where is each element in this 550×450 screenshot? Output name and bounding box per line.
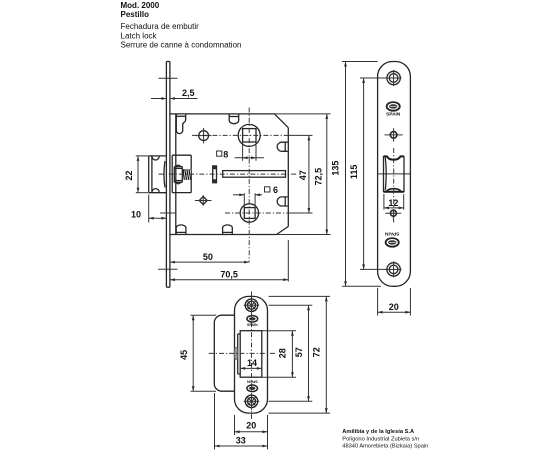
strike centerline vertical — [251, 292, 253, 420]
lock body outline — [170, 114, 331, 235]
guide hole top-left — [196, 128, 212, 143]
faceplate guide hole top — [385, 128, 403, 141]
svg-text:48340 Amorebieta (Bizkaia) Spa: 48340 Amorebieta (Bizkaia) Spain — [342, 444, 428, 450]
dimension 72,5 — [313, 114, 328, 235]
strike ramp tab — [234, 348, 237, 359]
svg-text:33: 33 — [236, 435, 246, 445]
faceplate side view (strip) — [166, 62, 170, 288]
dimension 2,5 — [151, 88, 198, 100]
dimension 50 — [170, 252, 249, 264]
centerline follower bottom — [225, 212, 313, 214]
svg-text:Serrure de canne à condomnatio: Serrure de canne à condomnation — [121, 41, 242, 50]
latch plunger — [174, 165, 182, 184]
svg-text:20: 20 — [389, 302, 399, 312]
dimension 47 — [298, 135, 311, 213]
faceplate mid tick — [378, 173, 411, 175]
svg-text:10: 10 — [131, 209, 141, 219]
latch bolt in opening — [384, 156, 405, 191]
svg-text:Mod. 2000: Mod. 2000 — [121, 1, 160, 10]
svg-text:Polígono Industrial Zubieta s/: Polígono Industrial Zubieta s/n — [342, 436, 419, 442]
svg-text:2,5: 2,5 — [182, 88, 195, 98]
dimension 57 — [269, 305, 313, 401]
svg-text:22: 22 — [124, 170, 134, 180]
company address block — [342, 429, 428, 450]
dimension 8 — [217, 142, 264, 161]
svg-text:135: 135 — [330, 161, 340, 176]
svg-text:8: 8 — [223, 149, 228, 159]
svg-text:115: 115 — [349, 165, 359, 180]
centerline horizontal main — [159, 173, 297, 175]
faceplate centerline vertical — [393, 148, 395, 223]
svg-text:Amilibia y de la Iglesia S.A: Amilibia y de la Iglesia S.A — [342, 429, 414, 435]
faceplate bottom screw hole — [386, 261, 402, 277]
svg-text:47: 47 — [298, 170, 308, 180]
svg-text:6: 6 — [273, 185, 278, 195]
latch spring — [183, 169, 191, 180]
latch bolt head — [149, 156, 167, 193]
side tab lower — [277, 197, 287, 206]
strike bottom screw hole — [244, 393, 260, 410]
strike plate wing — [214, 315, 234, 391]
slider bar — [213, 166, 217, 183]
dimension 20 (faceplate) — [378, 288, 411, 316]
mounting hook slot left — [176, 114, 185, 134]
dimension 28 — [262, 331, 296, 378]
svg-text:72: 72 — [312, 347, 322, 357]
connecting bar — [223, 171, 286, 178]
faceplate top screw hole — [386, 70, 402, 86]
svg-text:Latch lock: Latch lock — [121, 31, 158, 40]
diamond hole bottom-left — [195, 195, 212, 206]
svg-text:SPAIN: SPAIN — [247, 380, 258, 384]
dimension 20 (strike) — [235, 415, 268, 450]
side tab upper — [277, 142, 287, 151]
dimension 14 — [240, 358, 262, 370]
dimension 45 — [179, 315, 216, 391]
svg-text:70,5: 70,5 — [220, 269, 238, 279]
svg-text:SPAIN: SPAIN — [385, 230, 400, 236]
strike top screw hole — [244, 297, 260, 314]
dimension 6 — [233, 185, 278, 208]
centerline vertical followers — [248, 108, 250, 263]
dimension 22 — [124, 156, 148, 193]
bottom arch cutout right — [223, 225, 233, 235]
svg-text:SPAIN: SPAIN — [386, 111, 401, 117]
follower top (8mm) — [238, 124, 260, 146]
dimension 135 — [330, 62, 381, 287]
faceplate screw hole tick top — [159, 77, 178, 79]
faceplate front view outline — [378, 62, 411, 287]
faceplate tick mid — [160, 212, 176, 214]
latch case — [172, 155, 191, 192]
mounting hook slot right — [229, 114, 239, 124]
bottom arch cutout left — [176, 225, 186, 235]
faceplate screw hole tick bottom — [158, 268, 178, 270]
svg-text:45: 45 — [179, 350, 189, 360]
svg-text:57: 57 — [294, 347, 304, 357]
svg-text:12: 12 — [388, 198, 398, 208]
strike centerline horizontal — [209, 352, 276, 354]
centerline follower top — [192, 134, 313, 136]
faceplate latch opening — [383, 156, 385, 192]
dimension 72 — [269, 296, 331, 413]
strike SPAIN logo bottom (inverted) — [247, 380, 258, 392]
strike opening — [238, 331, 262, 378]
strike plate outline — [235, 296, 268, 413]
title text block — [121, 1, 242, 50]
svg-text:20: 20 — [246, 421, 256, 431]
dimension 115 — [349, 78, 387, 269]
dimension 10 — [131, 195, 166, 223]
svg-text:Fechadura de embutir: Fechadura de embutir — [121, 22, 200, 31]
dimension 12 — [384, 194, 404, 210]
svg-text:28: 28 — [277, 348, 287, 358]
faceplate SPAIN logo bottom (inverted) — [385, 230, 400, 246]
svg-text:72,5: 72,5 — [313, 168, 323, 186]
faceplate guide hole bottom — [385, 210, 401, 221]
svg-text:50: 50 — [203, 252, 213, 262]
faceplate SPAIN logo top — [386, 102, 401, 117]
strike SPAIN logo top — [247, 316, 258, 327]
follower bottom (6mm) — [240, 204, 258, 222]
svg-text:Pestillo: Pestillo — [121, 10, 150, 19]
svg-text:14: 14 — [247, 358, 257, 368]
dimension 33 — [215, 393, 268, 450]
dimension 70,5 — [170, 240, 288, 282]
svg-text:SPAIN: SPAIN — [247, 323, 258, 327]
